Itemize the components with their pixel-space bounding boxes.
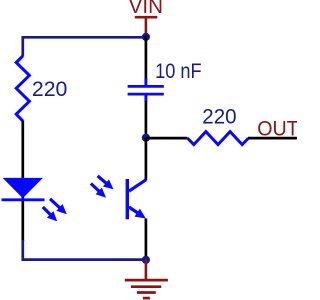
- wire collector (mid node down): [145, 138, 148, 181]
- resistor R2 (right): [187, 132, 248, 145]
- capacitor C1 bottom lead: [144, 95, 147, 102]
- wire to OUT: [248, 137, 297, 140]
- wire left vertical upper: [21, 36, 24, 57]
- capacitor C1 top lead: [144, 79, 147, 86]
- ground symbol bar 1: [125, 279, 168, 282]
- capacitor C1 bottom plate: [128, 93, 164, 96]
- svg-text:220: 220: [32, 78, 68, 101]
- svg-text:OUT: OUT: [257, 117, 297, 141]
- wire middle lower (capacitor to mid node): [145, 101, 148, 138]
- phototransistor Q1 light arrow 2: [88, 180, 109, 201]
- svg-text:220: 220: [202, 105, 236, 128]
- wire left vertical middle: [21, 121, 24, 242]
- phototransistor Q1 light arrow 1: [95, 172, 117, 193]
- wire VIN stub: [145, 17, 148, 34]
- power rail VIN bar: [135, 16, 158, 19]
- wire middle upper (node to capacitor): [145, 36, 148, 80]
- capacitor C1 top plate: [128, 85, 164, 88]
- ground symbol bar 4: [143, 297, 150, 300]
- LED D1 emission arrow 2: [40, 204, 61, 225]
- LED D1 cathode bar: [2, 198, 45, 201]
- svg-text:10 nF: 10 nF: [155, 60, 202, 83]
- ground symbol bar 2: [131, 285, 161, 288]
- resistor R1 (left): [16, 56, 29, 121]
- wire to right resistor: [146, 137, 188, 140]
- phototransistor Q1 collector: [129, 180, 146, 191]
- svg-text:VIN: VIN: [129, 0, 163, 18]
- phototransistor Q1 emitter: [129, 207, 140, 215]
- phototransistor Q1 emitter arrowhead: [134, 209, 148, 223]
- wire emitter to ground node: [145, 219, 148, 261]
- wire ground stub: [145, 260, 148, 280]
- phototransistor Q1 base bar: [126, 179, 129, 219]
- LED D1 emission arrow 1: [47, 195, 70, 217]
- node bottom junction: [142, 256, 150, 264]
- node top junction: [142, 33, 150, 41]
- node middle junction: [142, 134, 150, 142]
- ground symbol bar 3: [137, 291, 156, 294]
- wire left bottom corner: [23, 240, 146, 260]
- LED D1 triangle: [3, 178, 43, 198]
- wire top horizontal: [23, 36, 146, 39]
